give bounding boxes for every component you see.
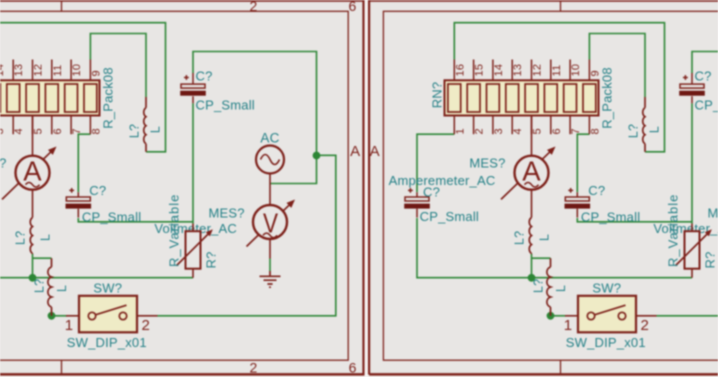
left schematic sheet: [0, 0, 365, 376]
right schematic sheet: [368, 0, 718, 376]
